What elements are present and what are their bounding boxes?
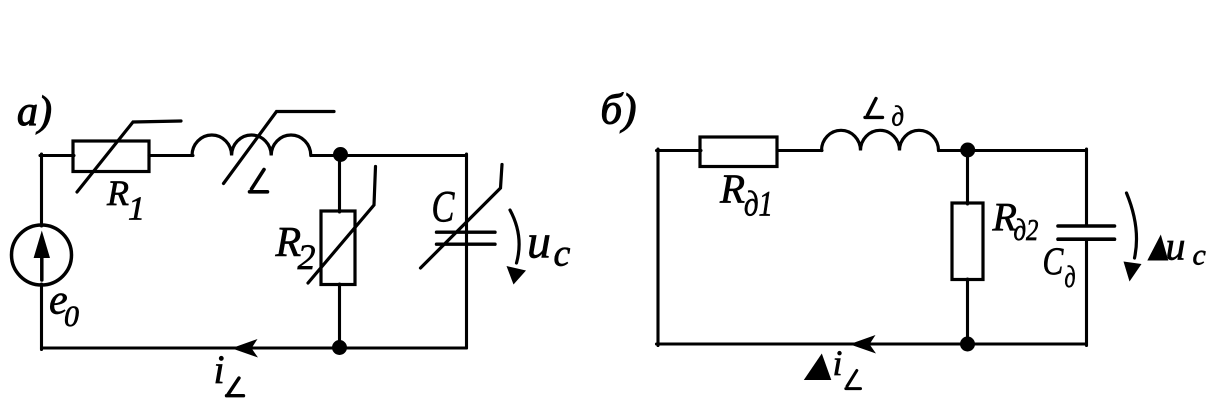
svg-text:R: R [719,166,745,212]
wire: b) right vertical upper [1085,149,1088,226]
nonlinear arrow of C [421,165,503,269]
resistor R2 [321,211,355,285]
label Rd2 [992,195,1039,248]
wire: L to node A [311,154,340,157]
voltage arrow u_c [510,210,519,263]
label du_c [1147,235,1168,261]
svg-text:u: u [1166,223,1186,268]
wire: a) bottom [42,346,467,349]
resistor Rd2 [952,203,983,280]
svg-text:C: C [432,182,455,231]
wire: b) left vertical [656,149,659,346]
label L [250,170,268,192]
inductor L [192,135,311,156]
wire: a) left vertical top [40,154,43,226]
wire: a) right vertical [465,154,468,348]
current arrow di_L [850,335,877,354]
node A top junction [333,147,348,162]
svg-text:д: д [1065,259,1076,294]
resistor Rd1 [700,137,777,167]
nonlinear arrow of R1 [77,121,181,192]
wire: Rd1 to Ld [777,149,822,152]
svg-text:R: R [106,173,129,213]
resistor R1 [73,141,149,172]
svg-text:i: i [214,347,225,392]
wire: node A to top-right corner [340,154,467,157]
svg-text:C: C [1043,240,1064,283]
source e0 [12,225,72,285]
node D bottom junction [960,337,975,352]
svg-text:c: c [1193,239,1206,272]
capacitor C [437,232,496,244]
svg-text:c: c [554,233,571,275]
voltage arrow du_c [1127,193,1137,258]
current arrow i_L [232,339,259,358]
wire: a) left vertical bottom [40,284,43,350]
svg-text:д: д [892,100,904,132]
wire: node C down to Rd2 [966,149,969,204]
wire: node C to top-right corner [967,149,1087,152]
label i_L [214,347,225,392]
node B bottom junction [332,340,347,355]
wire: R2 to bottom node [338,284,341,348]
svg-text:д1: д1 [744,185,773,225]
label R1 [106,173,145,228]
nonlinear arrow of L [224,112,335,184]
svg-text:i: i [833,343,843,383]
wire: node A down to R2 [338,154,341,212]
wire: Rd2 to bottom node [966,279,969,345]
wire: Ld to node C [939,149,969,152]
svg-text:1: 1 [128,191,145,228]
wire: b) bottom [657,342,1087,345]
svg-text:2: 2 [298,237,316,277]
nonlinear arrow of R2 [308,167,376,284]
svg-text:д2: д2 [1014,213,1039,247]
node C top junction [960,143,975,158]
label u_c [527,216,571,275]
label Ld [865,99,883,118]
svg-text:б): б) [601,87,637,134]
wire: R1 to L [149,154,193,157]
capacitor Cd [1058,226,1115,239]
label Rd1 [719,166,773,225]
label e0 [49,278,79,334]
svg-text:u: u [527,216,551,269]
wire: b) right vertical lower [1085,239,1088,345]
label di_L [804,354,832,381]
wire: a) top-left stub [40,154,74,157]
inductor Ld [822,130,939,150]
label R2 [275,220,316,277]
svg-text:0: 0 [64,300,79,333]
svg-text:а): а) [17,89,52,135]
wire: b) top-left stub [657,149,702,152]
